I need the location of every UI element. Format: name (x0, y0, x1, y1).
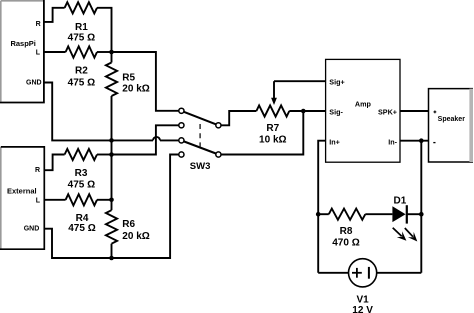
R3 labels (68, 168, 95, 190)
svg-text:SW3: SW3 (190, 161, 211, 172)
resistor R8 470 ohm (329, 209, 366, 220)
wire In- to speaker - (400, 140, 429, 142)
resistor R1 475 ohm (65, 2, 97, 13)
V1 labels (352, 294, 373, 313)
R5 labels (122, 73, 149, 95)
wire column R3 node to R4 node (111, 155, 113, 200)
R4 labels (68, 213, 95, 234)
voltage source V1 (349, 259, 377, 287)
wire switch C2 to R7 node (221, 111, 303, 155)
resistor R5 20 kohm (106, 63, 117, 97)
switch SW3 pole2 throw B2 (179, 152, 184, 157)
wire RaspPi R pin to R1 (44, 8, 65, 22)
svg-text:12 V: 12 V (352, 305, 373, 313)
wire External L pin to R4 (44, 199, 65, 201)
svg-text:R2: R2 (75, 66, 88, 77)
svg-text:V1: V1 (356, 294, 369, 305)
R7 labels (259, 123, 286, 145)
switch SW3 pole2 throw B1 (179, 138, 184, 143)
svg-text:GND: GND (24, 226, 40, 233)
wire R7 right to Sig- (289, 110, 325, 112)
wire switch C1 to R7 (221, 111, 256, 125)
svg-text:475 Ω: 475 Ω (68, 77, 95, 88)
svg-text:R6: R6 (122, 219, 135, 230)
svg-text:R5: R5 (122, 73, 135, 84)
wire R8 to D1 (365, 213, 392, 215)
svg-text:R4: R4 (76, 213, 89, 224)
potentiometer R7 10 kohm (256, 105, 289, 116)
wire External R pin to R3 (44, 155, 64, 171)
wire In+ down left column (318, 141, 325, 273)
node A junction R1/R2/R5 (109, 50, 114, 55)
svg-text:475 Ω: 475 Ω (68, 180, 95, 191)
wire In- node down right column (420, 141, 422, 273)
junction gnd node on column (109, 138, 114, 143)
svg-text:In-: In- (388, 137, 397, 146)
connector J1 RaspPi box (0, 0, 44, 103)
wire R6 bottom to gnd row (111, 244, 113, 258)
svg-text:475 Ω: 475 Ω (68, 32, 95, 43)
wire wiper to Sig+ (274, 80, 326, 82)
svg-text:20 kΩ: 20 kΩ (122, 84, 149, 95)
svg-text:10 kΩ: 10 kΩ (259, 135, 286, 146)
svg-text:Speaker: Speaker (438, 116, 466, 123)
svg-text:SPK+: SPK+ (378, 107, 397, 116)
svg-text:20 kΩ: 20 kΩ (122, 231, 149, 242)
wire RaspPi GND down and right (44, 83, 112, 141)
wire R1 right to node A (97, 8, 112, 52)
svg-text:L: L (36, 198, 41, 205)
junction D1 cathode node (419, 212, 424, 217)
svg-text:Amp: Amp (355, 99, 372, 108)
resistor R6 20 kohm (106, 210, 117, 244)
wire RaspPi L pin to R2 (44, 51, 66, 53)
switch SW3 common C2 (216, 152, 221, 157)
wire R8 left lead (318, 213, 329, 215)
wire column gnd node to R3 node (111, 140, 113, 154)
switch SW3 arm pole1 (184, 112, 216, 125)
wire D1 to right column (407, 213, 422, 215)
wire R5 bottom to gnd node (111, 96, 113, 140)
wire hop to switch B1 (160, 139, 179, 141)
svg-text:Sig-: Sig- (329, 107, 343, 116)
svg-text:470 Ω: 470 Ω (332, 238, 359, 249)
wire gnd node to hop (112, 139, 154, 141)
junction R7 right node (301, 109, 306, 114)
wire node A to switch A1 (112, 52, 179, 111)
switch SW3 arm pole2 (184, 141, 216, 153)
wire switch A2 to R3 node (112, 125, 179, 154)
svg-text:R: R (36, 21, 41, 28)
svg-text:R: R (35, 167, 40, 174)
junction R3 right node (109, 152, 114, 157)
R7 wiper arrow (271, 81, 277, 105)
resistor R3 475 ohm (65, 149, 97, 160)
svg-text:L: L (36, 50, 41, 57)
wire V1 right lead (377, 272, 422, 274)
wire R2 right to node A (97, 51, 112, 53)
svg-text:RaspPi: RaspPi (10, 39, 35, 48)
LS1 pin label - (433, 142, 435, 144)
R8 labels (332, 226, 359, 248)
wire node A to R5 (111, 52, 113, 63)
R1 labels (68, 22, 95, 43)
wire SPK+ to speaker + (400, 110, 429, 112)
switch SW3 pole1 throw A2 (179, 123, 184, 128)
amplifier U1 Amp box (326, 59, 400, 162)
svg-text:In+: In+ (329, 137, 340, 146)
wire hop over A2 vertical (153, 137, 160, 141)
svg-text:R3: R3 (75, 168, 88, 179)
LED D1 diode (392, 205, 406, 223)
junction R6 bottom node (109, 256, 114, 261)
wire R3 right to node (97, 154, 112, 156)
wire R4 right to node (97, 199, 112, 201)
svg-text:475 Ω: 475 Ω (68, 223, 95, 234)
R6 labels (122, 219, 149, 242)
wire R4 node to R6 (111, 200, 113, 210)
switch SW3 common C1 (216, 123, 221, 128)
LS1 pin label + (434, 111, 437, 114)
svg-text:Sig+: Sig+ (329, 77, 344, 86)
wire V1 left lead (318, 272, 348, 274)
D1 light arrows (393, 228, 418, 242)
junction R4 right node (109, 198, 114, 203)
resistor R4 475 ohm (66, 194, 97, 205)
svg-text:External: External (7, 187, 37, 196)
R2 labels (68, 66, 95, 89)
svg-text:GND: GND (26, 79, 42, 86)
switch SW3 pole1 throw A1 (179, 108, 184, 113)
svg-text:D1: D1 (394, 195, 407, 206)
svg-text:R8: R8 (340, 226, 353, 237)
speaker LS1 box (429, 89, 474, 162)
resistor R2 475 ohm (66, 46, 97, 57)
wire External GND to gnd row to switch B2 (44, 155, 178, 259)
svg-text:R7: R7 (266, 123, 279, 134)
switch SW3 gang dashed link (199, 124, 201, 147)
junction R8 left node (316, 212, 321, 217)
junction In- node (419, 138, 424, 143)
connector J2 External box (0, 147, 44, 249)
